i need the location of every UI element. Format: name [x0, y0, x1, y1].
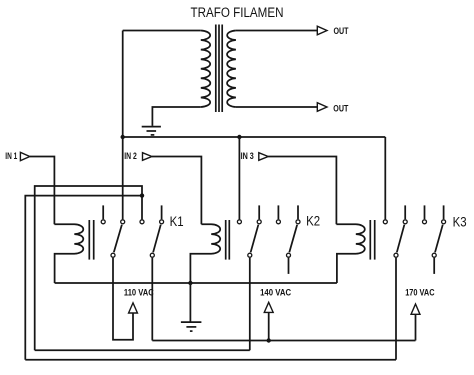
wire: coil common line y=283	[55, 282, 337, 284]
node: 140VAC junction on tap line	[267, 338, 271, 342]
wire: IN2 to K2 coil top	[152, 157, 202, 225]
transformer T1 core	[216, 25, 222, 113]
relay K2 switch2 pole stub	[288, 258, 290, 274]
relay K3 switch2 arm	[435, 225, 443, 253]
node: bus junction at x=239.4	[237, 135, 241, 139]
svg-text:IN 1: IN 1	[5, 151, 17, 161]
svg-text:K2: K2	[306, 214, 320, 229]
ground: transformer primary ground	[142, 127, 161, 135]
relay K2 switch2 fixed contact circles	[276, 220, 280, 224]
node: junction loops A and B	[140, 193, 144, 197]
wire: secondary bottom lead to OUT	[236, 106, 317, 108]
relay K1 switch1 pole circle	[111, 253, 115, 257]
svg-text:110 VAC: 110 VAC	[124, 287, 154, 297]
ground: relay common ground	[189, 283, 191, 322]
relay K1 core	[89, 220, 93, 260]
wire: tap line y=340.5	[152, 340, 415, 342]
terminal arrow: OUT bottom	[317, 103, 327, 112]
relay K1 switch2 pole circle	[150, 253, 154, 257]
wire: loop A bottom run	[35, 349, 250, 351]
relay K3 switch1 pole circle	[394, 253, 398, 257]
relay K2 switch1 pole circle	[248, 253, 252, 257]
relay K1 switch1 fixed contact circle (bus side)	[101, 220, 105, 224]
relay K2 core	[226, 220, 230, 260]
relay K3 core	[370, 220, 374, 260]
relay K1 coil	[54, 224, 83, 283]
svg-text:140 VAC: 140 VAC	[260, 287, 291, 297]
svg-text:170 VAC: 170 VAC	[405, 288, 435, 298]
relay K3 switch1 fixed contact circles	[383, 220, 387, 224]
relay K1 contact stub NO2	[161, 205, 163, 219]
terminal arrow: IN 3	[259, 153, 268, 161]
node: bus junction at x=122.7	[121, 135, 125, 139]
wire: K2 switch1 pole down to loop A	[249, 258, 251, 351]
relay K2 switch1 fixed contact circles	[237, 220, 241, 224]
relay K3 contact stubs	[404, 205, 406, 219]
transformer T1 secondary coil	[227, 31, 236, 108]
terminal arrow: OUT top	[317, 26, 327, 35]
terminal arrow: 170 VAC	[411, 304, 420, 314]
wire: IN1 to K1 coil top	[30, 157, 55, 225]
relay K3 switch1 arm	[397, 225, 405, 253]
node: ground junction on common line	[188, 281, 192, 285]
wire: primary top lead	[123, 30, 201, 32]
wire: loop B bottom run	[25, 359, 396, 361]
wire: horizontal bus y=137	[123, 136, 386, 138]
relay K1 switch1 arm	[114, 225, 122, 253]
wire: secondary top lead to OUT	[236, 30, 317, 32]
wire: K1 switch1 pole down to 110VAC	[113, 258, 133, 340]
relay K1 switch2 arm	[153, 225, 161, 253]
wire: bus right vertical down to K3 contact	[384, 137, 386, 219]
transformer T1 primary coil	[201, 31, 210, 108]
relay K3 switch2 fixed contact circles	[423, 220, 427, 224]
terminal arrow: IN 1	[20, 152, 29, 160]
relay K2 contact stubs	[258, 205, 260, 219]
relay K2 switch2 pole circle	[287, 253, 291, 257]
relay K1 contact stub NC1	[102, 205, 104, 219]
relay K2 coil	[190, 224, 220, 283]
wire: primary bottom lead	[152, 107, 200, 126]
wire: loop A from K2 pole up-left to K1 NC contact	[35, 186, 142, 350]
relay K2 switch2 arm	[289, 225, 297, 253]
relay K3 switch2 pole stub	[433, 258, 435, 274]
wire: K1 switch2 pole down to tap line	[151, 258, 153, 341]
svg-text:TRAFO FILAMEN: TRAFO FILAMEN	[191, 5, 284, 20]
relay K3 switch2 pole circle	[432, 253, 436, 257]
terminal arrow: 140 VAC	[264, 302, 273, 312]
terminal arrow: 110 VAC	[129, 303, 138, 313]
relay K3 coil	[336, 224, 364, 283]
relay K2 switch1 arm	[251, 225, 259, 253]
svg-text:OUT: OUT	[334, 26, 349, 36]
terminal arrow: IN 2	[143, 153, 152, 161]
svg-text:IN 2: IN 2	[124, 151, 137, 161]
svg-text:IN 3: IN 3	[241, 151, 254, 161]
wire: bus mid vertical down to K2 contact	[238, 137, 240, 219]
wire: IN3 to K3 coil top	[268, 157, 336, 225]
wire: loop B right vertical to K3 pole	[395, 258, 397, 360]
wire: left vertical from primary top to K1 contact	[122, 31, 124, 220]
relay K1 switch2 fixed contact circles	[140, 220, 144, 224]
svg-text:K3: K3	[453, 214, 467, 229]
wire: 140VAC riser	[268, 312, 270, 340]
wire: loop B from K3 pole up-left to junction	[25, 196, 142, 360]
wire: 170VAC riser	[415, 314, 417, 340]
svg-text:K1: K1	[170, 214, 184, 229]
svg-text:OUT: OUT	[333, 103, 348, 113]
